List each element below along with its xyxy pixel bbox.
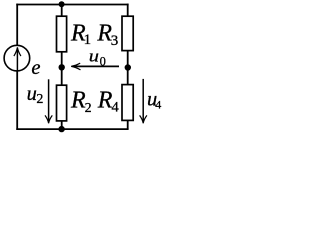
- svg-text:0: 0: [100, 54, 106, 68]
- svg-text:e: e: [31, 57, 40, 79]
- wire middle top stem: [61, 5, 63, 17]
- wire left upper: [16, 4, 18, 46]
- resistor R2 body: [57, 85, 67, 121]
- wire right top stem: [127, 4, 129, 17]
- junction dot bottom: [58, 126, 64, 132]
- label R3: [96, 21, 118, 49]
- wire left lower: [16, 71, 18, 130]
- u4 voltage arrow pointing down: [140, 79, 147, 124]
- label R1: [70, 21, 91, 48]
- wire between R3 and R4: [127, 50, 129, 84]
- label u0: [89, 47, 106, 68]
- svg-text:3: 3: [111, 33, 119, 49]
- label u2: [27, 83, 44, 107]
- svg-text:4: 4: [112, 99, 120, 115]
- wire top rail: [16, 4, 128, 6]
- label R2: [70, 87, 92, 116]
- junction dot mid-right: [125, 64, 131, 70]
- svg-text:R: R: [97, 87, 113, 113]
- wire between R1 and R2: [61, 52, 63, 85]
- label R4: [97, 87, 120, 115]
- source e arrow: [14, 47, 21, 70]
- wire R2 bottom stem: [61, 121, 63, 129]
- svg-text:u: u: [27, 83, 37, 105]
- u2 voltage arrow pointing down: [45, 79, 52, 123]
- svg-text:u: u: [89, 47, 99, 66]
- resistor R1 body: [57, 16, 67, 52]
- source e circle: [4, 45, 30, 71]
- wire bottom rail: [16, 128, 128, 130]
- svg-text:2: 2: [36, 92, 43, 107]
- svg-text:4: 4: [155, 97, 161, 111]
- u0 voltage arrow pointing left: [71, 63, 119, 70]
- svg-text:1: 1: [84, 32, 92, 48]
- label u4: [147, 89, 161, 112]
- junction dot mid-left: [59, 64, 65, 70]
- wire R4 bottom stem: [127, 120, 129, 129]
- resistor R4 body: [122, 85, 133, 121]
- resistor R3 body: [122, 16, 133, 50]
- junction dot top: [59, 1, 65, 7]
- svg-text:2: 2: [85, 101, 92, 116]
- svg-text:R: R: [70, 87, 86, 113]
